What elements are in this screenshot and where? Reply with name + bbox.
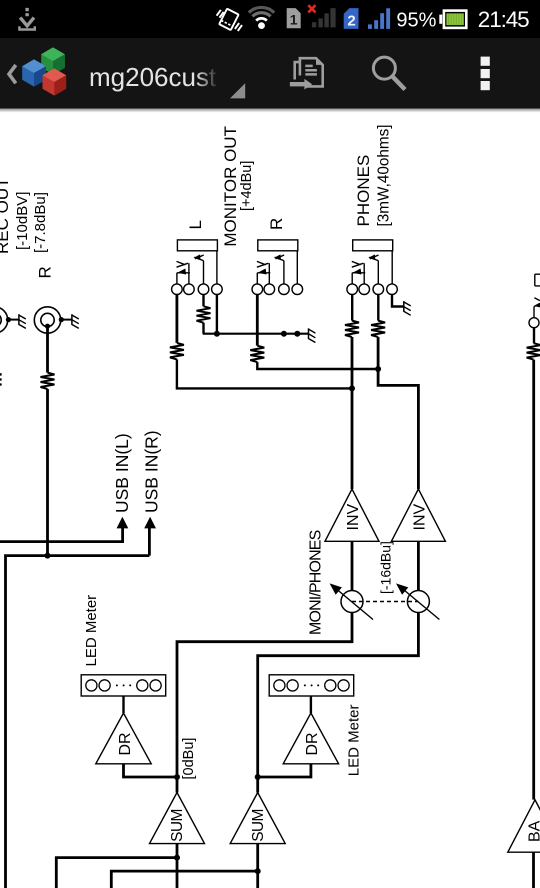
jack PHONES ring contact: [368, 254, 378, 284]
resistor (PHONES L series): [345, 321, 359, 337]
wire MONITOR L sleeve down: [216, 295, 218, 334]
junction (INV2 input node): [375, 366, 381, 372]
wire INV2 to pot: [417, 541, 420, 590]
junction (SUM2 output node): [255, 774, 261, 780]
wire MONITOR R tip down: [256, 295, 259, 346]
wire MONITOR L tip down: [175, 295, 178, 343]
svg-text:MONI/PHONES: MONI/PHONES: [307, 530, 324, 635]
USB IN(R) arrow: [144, 517, 156, 529]
junction on SUM2 bottom bus: [255, 868, 261, 874]
svg-text:[-16dBu]: [-16dBu]: [378, 541, 394, 594]
phone jack PHONES : body: [347, 240, 397, 295]
svg-text:21:45: 21:45: [478, 7, 529, 32]
ground (PHONES sleeve): [404, 301, 411, 315]
svg-text:BA: BA: [527, 820, 540, 842]
wire pot2 to SUM2: [258, 613, 419, 793]
wire DR1 tap: [124, 764, 178, 777]
svg-text:INV: INV: [412, 504, 429, 531]
LED meter display (right): [269, 675, 354, 696]
wire ring resistor to ground bus: [202, 323, 204, 334]
svg-text:[-7.8dBu]: [-7.8dBu]: [32, 192, 49, 253]
ground bus line: [203, 333, 309, 335]
junction dots on ground bus: [214, 331, 220, 337]
svg-text:INV: INV: [345, 504, 362, 531]
resistor (MONITOR R series): [250, 346, 264, 362]
svg-text:[3mW,40ohms]: [3mW,40ohms]: [375, 124, 392, 226]
resistor (right jack series): [527, 343, 540, 359]
jack L ring contact: [194, 254, 204, 284]
svg-text:USB IN(R): USB IN(R): [142, 430, 162, 513]
svg-text:MONITOR OUT: MONITOR OUT: [221, 126, 240, 247]
wire BA output down: [532, 852, 535, 888]
potentiometer MONI/PHONES (left): [330, 583, 373, 619]
amp DR (left meter driver): [96, 713, 151, 764]
search icon: [373, 57, 405, 89]
potentiometer MONI/PHONES (right): [396, 583, 439, 619]
jack R tip contact: [257, 261, 270, 284]
wire PHONES ring down: [377, 295, 379, 321]
amp BA (bottom right, cut): [508, 800, 540, 852]
svg-text:2: 2: [347, 13, 355, 30]
title fade-out: [196, 56, 219, 98]
resistor (REC R output): [41, 373, 55, 389]
jack L tip contact: [177, 261, 190, 284]
wire right jack down: [533, 328, 535, 344]
wire SUM1 bottom bus: [56, 858, 177, 888]
vibrate-mode icon: [217, 9, 242, 31]
app logo (3 cubes): [22, 47, 66, 95]
resistor (REC L output): [0, 373, 2, 389]
battery icon: [439, 11, 466, 28]
SIM 2 icon: [344, 8, 359, 30]
SIM 1 signal bars (empty): [312, 8, 336, 27]
overflow menu icon: [481, 57, 490, 91]
ground (REC OUT L): [19, 314, 26, 328]
RCA jack REC OUT R: [34, 307, 72, 333]
svg-text:PHONES: PHONES: [354, 155, 373, 227]
wire PHONES L node down to INV1: [351, 337, 354, 489]
phone jack MONITOR OUT L : body: [172, 240, 223, 295]
amp SUM (right): [230, 793, 285, 844]
wire MONITOR R to INV2 node: [257, 362, 378, 369]
LED meter display (left): [81, 675, 166, 696]
ground (REC OUT R): [72, 314, 79, 328]
title dropdown triangle: [230, 83, 245, 98]
svg-text:SUM: SUM: [250, 809, 267, 842]
go-to-page icon: [290, 58, 323, 89]
jack R ring contact: [274, 254, 284, 284]
resistor (PHONES R series): [371, 321, 385, 337]
download notification icon: [19, 8, 34, 30]
svg-text:LED Meter: LED Meter: [83, 595, 100, 667]
wire SUM2 output down: [256, 844, 259, 888]
amp SUM (left): [150, 793, 205, 844]
svg-text:[+4dBu]: [+4dBu]: [239, 161, 255, 211]
svg-text:REC OUT: REC OUT: [0, 178, 12, 255]
back chevron: [9, 65, 16, 83]
junction on SUM1 bottom bus: [174, 855, 180, 861]
svg-text:DR: DR: [117, 732, 134, 755]
junction (R bus): [45, 553, 51, 559]
svg-text:R: R: [267, 218, 286, 230]
resistor (MONITOR L ring to gnd): [197, 306, 211, 322]
wire PHONES sleeve to ground: [392, 295, 404, 307]
wire MONITOR L to INV node: [177, 359, 352, 388]
wire REC R to R bus: [46, 389, 49, 556]
svg-text:LED Meter: LED Meter: [345, 704, 362, 776]
USB IN(L) arrow: [117, 517, 129, 529]
wire REC L to USB node: [0, 389, 123, 542]
svg-text:95%: 95%: [396, 9, 436, 31]
dashed gang link between pots: [352, 601, 418, 603]
junction (INV1 input node): [349, 385, 355, 391]
wire MONITOR L ring down: [202, 295, 204, 307]
wire DR2 tap: [258, 764, 311, 777]
svg-text:USB IN(L): USB IN(L): [112, 433, 132, 513]
svg-text:[-10dBV]: [-10dBV]: [14, 192, 31, 250]
wire R bus horizontal and down left edge: [6, 556, 150, 888]
status bar background: [0, 0, 540, 38]
junction (SUM1 output node): [174, 774, 180, 780]
svg-text:L: L: [186, 220, 205, 229]
wire REC R down: [46, 326, 49, 372]
wire INV1 to pot: [351, 541, 354, 590]
phone jack MONITOR OUT R : body: [252, 240, 303, 295]
wire SUM2 bottom bus: [111, 871, 257, 888]
wire meter1 to DR1: [122, 696, 124, 713]
wire pot1 to SUM1: [177, 613, 352, 793]
wire SUM1 output down: [176, 844, 179, 888]
phone jack (right, cut at edge) : body: [529, 274, 540, 328]
toolbar bottom shadow: [0, 109, 540, 113]
jack PHONES tip contact: [352, 261, 365, 284]
wire right jack to BA amp: [532, 360, 535, 800]
svg-text:1: 1: [290, 12, 298, 28]
op-amp INV (right): [391, 489, 445, 541]
resistor (MONITOR L series): [170, 343, 184, 359]
SIM 1 no-signal cross: [308, 5, 315, 12]
amp DR (right meter driver): [283, 713, 338, 764]
RCA jack REC OUT L (cut at left edge): [0, 307, 19, 333]
svg-text:[0dBu]: [0dBu]: [181, 738, 197, 780]
svg-text:DR: DR: [304, 732, 321, 755]
svg-text:R: R: [36, 266, 55, 278]
op-amp INV (left): [325, 489, 379, 541]
ground (monitor bus): [309, 328, 316, 342]
SIM 1 icon: [287, 8, 301, 28]
svg-text:SUM: SUM: [169, 809, 186, 842]
SIM 2 signal bars: [368, 8, 390, 29]
wire PHONES R node down to INV2: [378, 337, 418, 489]
wire PHONES tip down: [351, 295, 353, 321]
wire meter2 to DR2: [310, 696, 312, 713]
wifi icon: [249, 7, 274, 29]
wire R bus to USB IN(R) arrow: [148, 527, 151, 555]
app toolbar background: [0, 38, 540, 109]
